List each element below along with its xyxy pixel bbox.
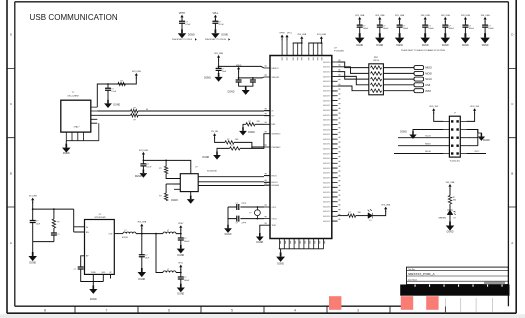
svg-text:3V3_USB: 3V3_USB: [317, 34, 326, 36]
svg-text:100nF: 100nF: [449, 28, 455, 30]
svg-text:PLACE NEXT TO EACH VCCA AND VC: PLACE NEXT TO EACH VCCA AND VCCD PINS: [401, 49, 446, 52]
svg-text:ADBUS5: ADBUS5: [323, 201, 330, 204]
resistor RN element 1: [371, 66, 382, 69]
power flag 1V8_USB cap 5: [441, 15, 451, 23]
wire U1 pin to RN row5: [338, 86, 369, 91]
ferrite bead L VPHY: [163, 232, 176, 234]
wire VPLL to cap: [214, 19, 216, 22]
ground DGND green led: [446, 222, 455, 231]
wire R to ground: [243, 124, 246, 127]
svg-text:7: 7: [106, 308, 108, 312]
svg-text:3V3_USB: 3V3_USB: [381, 205, 390, 207]
svg-text:3V3_USB: 3V3_USB: [355, 15, 365, 17]
svg-text:OSCI: OSCI: [272, 207, 277, 209]
wire divider to U1 SUSPND: [252, 134, 264, 149]
ground DGND TEST pin: [256, 233, 264, 241]
svg-text:ADBUS7: ADBUS7: [323, 95, 330, 98]
wire divider to U1 PWRSAV: [252, 147, 264, 148]
U1 bottom pins and ground bus: [279, 239, 324, 249]
wire 5V rail: [33, 208, 74, 210]
power flag 3V3_USB regulator out: [137, 222, 146, 230]
power flag 3V3_USB small IC: [139, 150, 148, 158]
svg-text:DGND: DGND: [188, 34, 195, 36]
svg-text:SCLK: SCLK: [425, 135, 431, 137]
wire to vphy cap: [180, 234, 182, 238]
svg-text:100nF: 100nF: [403, 28, 409, 30]
ground DGND bypass cap 6: [461, 33, 471, 43]
svg-text:R?: R?: [134, 108, 136, 110]
ground DGND VPLL cap: [177, 284, 185, 293]
svg-text:SUSPND#: SUSPND#: [272, 134, 282, 136]
ground DGND reg out cap: [138, 268, 147, 277]
wire rail to VIN EN: [74, 209, 85, 232]
svg-text:ADBUS6: ADBUS6: [323, 90, 330, 93]
resistor R divider top: [225, 141, 234, 144]
svg-text:3V3_USB: 3V3_USB: [395, 15, 405, 17]
capacitor C vregin 1: [236, 80, 242, 82]
capacitor C bypass 5: [442, 25, 448, 27]
wire rail to cap: [142, 160, 144, 164]
wire cap to ground: [218, 70, 220, 73]
capacitor C small IC: [140, 164, 146, 166]
red highlight square 2: [401, 296, 413, 310]
svg-text:D?: D?: [369, 220, 371, 222]
capacitor C bypass reg: [78, 267, 84, 269]
svg-text:ADBUS0: ADBUS0: [323, 61, 330, 64]
wire flag to resistor: [449, 188, 451, 196]
resistor R series XO: [131, 114, 139, 117]
svg-text:DGND: DGND: [447, 232, 454, 234]
ground DGND reset cap: [215, 73, 223, 82]
svg-text:100nF: 100nF: [488, 28, 494, 30]
wire J1 pin2 to VDD flag: [466, 112, 474, 121]
wire ferrite to VPHY flag: [176, 229, 181, 233]
wire cap to ground: [141, 257, 143, 268]
svg-text:DGND: DGND: [462, 45, 469, 47]
wire osc out to R: [97, 110, 130, 112]
wire osc to R2: [97, 114, 130, 116]
node tag MOSI: [414, 71, 432, 75]
wire J1 MISO: [398, 145, 443, 147]
svg-text:100nF: 100nF: [184, 241, 190, 243]
resistor RN element 5: [371, 89, 382, 92]
svg-text:1V8_USB: 1V8_USB: [481, 15, 491, 17]
svg-text:ADBUS2: ADBUS2: [323, 148, 330, 151]
wire cap to ground: [484, 27, 486, 33]
power flag 3V3_USB green led: [446, 182, 455, 190]
wire crystal caps join: [227, 207, 229, 225]
svg-text:ADBUS4: ADBUS4: [323, 80, 330, 83]
transistor U3 small IC body SLG: [180, 174, 198, 192]
capacitor C bypass 1: [357, 25, 363, 27]
wire R to small IC pin: [166, 174, 180, 179]
op-amp U1 main USB IC body FT2232HL: [270, 56, 332, 239]
svg-text:5V_USB: 5V_USB: [29, 196, 37, 198]
wire cap to ground: [107, 90, 109, 100]
wire junction to flag: [141, 228, 143, 234]
svg-text:ADBUS4: ADBUS4: [323, 119, 330, 122]
svg-text:C?: C?: [57, 234, 59, 236]
ground DGND J1 right: [478, 133, 485, 141]
left zone ticks: [7, 69, 15, 208]
right zone ticks: [508, 69, 516, 208]
svg-text:L?: L?: [167, 269, 169, 271]
wire vregin net to U1: [239, 71, 264, 78]
wire flag to cap: [379, 21, 381, 25]
node tag MISO: [414, 66, 432, 70]
svg-text:VDD_3V3: VDD_3V3: [470, 106, 480, 108]
svg-text:100nF: 100nF: [363, 28, 369, 30]
svg-text:ADBUS1: ADBUS1: [323, 104, 330, 107]
capacitor C vregin 2: [250, 80, 256, 82]
capacitor C input bulk: [30, 221, 36, 223]
wire to osc cap: [107, 84, 109, 88]
wire R to U1 XO: [138, 114, 270, 116]
power flag 3V3_USB pwren led: [381, 205, 390, 213]
power flag 3V3_USB reset pullup: [214, 53, 223, 61]
svg-text:DGND: DGND: [248, 132, 255, 134]
oscillator bottom pins: [66, 123, 99, 141]
svg-text:TEST: TEST: [272, 225, 278, 227]
bottom zone number row dividers: [75, 306, 390, 313]
wire small IC to ground: [190, 192, 192, 196]
svg-text:33: 33: [146, 109, 148, 111]
svg-text:MOSI: MOSI: [425, 72, 432, 76]
ground DGND bypass cap 4: [420, 33, 430, 43]
power flag VPLL: [212, 12, 219, 21]
wire 3v3 rail to small IC: [143, 156, 190, 174]
power flag VPHY: [179, 12, 186, 21]
wire flag to cap: [424, 21, 426, 25]
wire node to R2: [165, 184, 167, 193]
wire flag to cap: [359, 21, 361, 25]
svg-text:VPHY: VPHY: [179, 12, 186, 15]
ground DGND REF resistor: [239, 127, 247, 135]
ferrite bead L VPLL: [163, 271, 176, 273]
wire cap to ground: [464, 27, 466, 33]
svg-text:5: 5: [231, 308, 233, 312]
svg-text:3V3_USB: 3V3_USB: [132, 71, 141, 73]
wire TEST to ground: [260, 225, 264, 233]
svg-text:ADBUS5: ADBUS5: [323, 123, 330, 126]
U1 top pin numbers: [282, 57, 323, 60]
svg-text:100nF: 100nF: [428, 28, 434, 30]
power flag 3V3_USB left rail: [297, 34, 306, 42]
ground DGND regulator: [89, 285, 97, 294]
ground DGND bypass cap 3: [395, 33, 405, 43]
svg-text:R?: R?: [249, 121, 251, 123]
svg-text:ADBUS0: ADBUS0: [323, 99, 330, 102]
svg-text:ADBUS2: ADBUS2: [323, 70, 330, 73]
svg-text:R?: R?: [159, 168, 161, 170]
svg-text:DGND: DGND: [171, 200, 178, 202]
ground DGND bypass cap 2: [375, 33, 385, 43]
connector J1 pin stubs: [443, 120, 466, 155]
svg-text:PGND: PGND: [91, 272, 97, 274]
capacitor C bypass 4: [422, 25, 428, 27]
capacitor C bypass 7: [482, 25, 488, 27]
wire LED to flag: [373, 211, 386, 216]
wire U1 pin to RN row4: [338, 76, 369, 84]
svg-text:DGND: DGND: [256, 242, 263, 244]
svg-text:DGND: DGND: [202, 157, 209, 159]
svg-text:3V3_USB: 3V3_USB: [214, 53, 223, 55]
wire J1 right to ground: [466, 130, 478, 134]
capacitor C crystal 1: [237, 204, 239, 210]
svg-text:SLG46538: SLG46538: [207, 170, 217, 172]
ferrite bead L main: [123, 232, 136, 234]
svg-text:3V3_USB: 3V3_USB: [137, 222, 146, 224]
U1 left pin labels: [272, 68, 282, 227]
svg-text:4.7uF: 4.7uF: [185, 24, 191, 26]
wire caps join: [239, 82, 253, 86]
capacitor C reset: [216, 68, 222, 70]
svg-text:D?: D?: [453, 218, 455, 220]
svg-text:DGND: DGND: [63, 153, 70, 155]
svg-text:DGND: DGND: [277, 264, 284, 266]
svg-text:DGND: DGND: [483, 140, 490, 142]
svg-text:DGND: DGND: [177, 255, 184, 257]
svg-text:3: 3: [357, 308, 359, 312]
wire cap to ground: [180, 240, 182, 245]
svg-text:ADBUS7: ADBUS7: [323, 210, 330, 213]
svg-text:Date Sheet: Date Sheet: [408, 278, 417, 281]
connector J1 body: [449, 116, 460, 157]
svg-text:ADBUS0: ADBUS0: [323, 138, 330, 141]
svg-text:VREGIN: VREGIN: [272, 77, 280, 79]
ground DGND vregin caps: [242, 86, 250, 95]
power flag 3V3_USB right rail: [317, 34, 326, 42]
crystal Y2: [255, 207, 261, 219]
wire to vpll cap: [180, 273, 182, 278]
wire join to ground: [33, 235, 54, 242]
svg-text:ADBUS0: ADBUS0: [323, 176, 330, 179]
wire OSCI: [228, 206, 264, 208]
svg-text:EEDATA: EEDATA: [272, 184, 280, 187]
ground DGND under VPLL cap: [211, 29, 220, 38]
svg-text:R?: R?: [134, 119, 136, 121]
svg-text:8: 8: [44, 308, 46, 312]
svg-text:ADBUS6: ADBUS6: [323, 167, 330, 170]
wire cap to ground: [181, 23, 183, 29]
ground DGND divider: [213, 151, 221, 159]
svg-text:ADBUS0: ADBUS0: [323, 215, 330, 218]
capacitor C input 2: [51, 233, 57, 235]
wire reset net to U1: [219, 59, 264, 68]
wire J1 pin3 to ground: [413, 130, 443, 132]
wire ferrite to vphy branch: [136, 233, 163, 235]
svg-text:ADBUS2: ADBUS2: [323, 186, 330, 189]
resistor R REF: [246, 123, 255, 126]
svg-text:ADBUS2: ADBUS2: [323, 109, 330, 112]
svg-text:OSCO: OSCO: [272, 219, 278, 221]
svg-text:MISO: MISO: [425, 143, 431, 145]
svg-text:0.1uF: 0.1uF: [111, 91, 117, 93]
svg-text:R?: R?: [121, 81, 123, 83]
wire R to cap: [53, 228, 55, 233]
svg-text:Y?: Y?: [249, 213, 251, 215]
wire U1 pin to RN row3: [338, 72, 369, 80]
svg-text:330: 330: [453, 200, 456, 202]
wire RN to tag SCLK: [383, 78, 414, 80]
wire VPHY to cap: [181, 19, 183, 22]
capacitor C osc enable: [105, 88, 111, 90]
red highlight square 3: [426, 296, 438, 310]
ground DGND oscillator: [62, 144, 71, 153]
svg-text:S82XXXX_PVRF_A: S82XXXX_PVRF_A: [408, 272, 435, 276]
op-amp U4 regulator body SPX3819: [85, 220, 115, 275]
wire flag to cap: [399, 21, 401, 25]
svg-text:RESET#: RESET#: [272, 68, 280, 70]
wire cap to gnd rail: [81, 269, 94, 282]
wire to reset cap: [218, 66, 220, 68]
resistor R divider bottom: [230, 147, 240, 150]
U1 left pin stubs: [264, 68, 270, 225]
wire reg gnd pins: [93, 274, 110, 281]
svg-text:ADBUS7: ADBUS7: [323, 133, 330, 136]
power flag VPLL out: [178, 263, 184, 271]
power flag VPHY at U1: [279, 33, 285, 41]
power flag 3V3_USB cap 3: [395, 15, 405, 23]
svg-text:4: 4: [294, 308, 296, 312]
wire resistor to LED: [449, 204, 451, 210]
revision table lines: [445, 298, 492, 313]
svg-text:EECLK: EECLK: [272, 182, 279, 184]
svg-text:Title Rev: Title Rev: [408, 268, 415, 271]
wire cap to ground: [424, 27, 426, 33]
wire cap to ground: [444, 27, 446, 33]
wire junction to cap: [141, 234, 143, 255]
U1 right pin labels: [323, 61, 330, 223]
svg-text:VPHY: VPHY: [279, 33, 285, 35]
ground DGND bypass cap 7: [480, 33, 490, 43]
wire flag to cap: [464, 21, 466, 25]
capacitor C crystal 2: [237, 216, 239, 222]
resistor R green LED: [448, 196, 451, 204]
wire osc enable net: [97, 84, 136, 107]
svg-text:0.1uF: 0.1uF: [147, 167, 153, 169]
power flag 5V_USB: [29, 196, 37, 204]
wire osc to ground: [65, 141, 67, 144]
svg-text:PU_RB: PU_RB: [211, 131, 218, 133]
svg-text:4.7uF: 4.7uF: [219, 24, 225, 26]
wire cap to join: [32, 222, 34, 241]
svg-text:ADBUS5: ADBUS5: [323, 162, 330, 165]
capacitor C bypass 2: [377, 25, 383, 27]
svg-text:DGND: DGND: [400, 132, 407, 134]
wire to ground: [92, 282, 94, 286]
svg-text:XTAL?: XTAL?: [74, 125, 81, 128]
svg-text:DGND: DGND: [482, 45, 489, 47]
wire U1 pin to RN row1: [338, 62, 369, 68]
svg-text:BLM18: BLM18: [122, 237, 128, 239]
svg-text:L?: L?: [125, 230, 127, 232]
svg-text:ADBUS1: ADBUS1: [323, 220, 330, 223]
resistor R series XI: [131, 109, 139, 112]
svg-text:3V3_USB: 3V3_USB: [297, 34, 306, 36]
svg-text:100nF: 100nF: [383, 28, 389, 30]
ground DGND regulator input: [28, 252, 37, 261]
svg-text:USB COMMUNICATION: USB COMMUNICATION: [30, 13, 118, 22]
wire R to U1 XI: [138, 110, 270, 112]
svg-text:ADBUS1: ADBUS1: [323, 181, 330, 184]
wire R to U1 REF: [255, 123, 264, 125]
svg-text:ADBUS1: ADBUS1: [323, 66, 330, 69]
svg-text:PLACE NEXT TO PIN 49: PLACE NEXT TO PIN 49: [205, 38, 226, 41]
svg-text:DGND: DGND: [422, 45, 429, 47]
svg-text:DGND: DGND: [356, 45, 363, 47]
svg-text:1V8_USB: 1V8_USB: [461, 15, 471, 17]
resistor RN element 2: [371, 72, 382, 75]
svg-text:INT#: INT#: [475, 151, 481, 153]
svg-text:DGND: DGND: [442, 45, 449, 47]
power flag VPHY out: [178, 223, 184, 231]
svg-text:MOSI: MOSI: [425, 151, 431, 153]
svg-text:DGND: DGND: [225, 234, 232, 236]
wire resistor to LED: [356, 215, 369, 217]
wire cap to ground: [214, 23, 216, 29]
svg-text:MISO: MISO: [425, 66, 432, 70]
red highlight square 1: [329, 296, 341, 310]
power flag 3V3_USB cap 2: [375, 15, 385, 23]
svg-text:DGND: DGND: [138, 279, 145, 281]
ground DGND small IC cap: [140, 169, 148, 177]
svg-text:A: A: [10, 241, 12, 245]
svg-text:CAY16: CAY16: [373, 59, 379, 62]
wire rail to pullup R: [165, 160, 167, 166]
wire bus to ground: [280, 249, 282, 253]
svg-text:100nF: 100nF: [184, 280, 190, 282]
svg-text:C?: C?: [236, 203, 238, 205]
resistor RN element 3: [371, 77, 382, 80]
svg-text:ADBUS3: ADBUS3: [323, 75, 330, 78]
ground DGND VPHY cap: [177, 245, 185, 254]
svg-text:R?: R?: [231, 145, 233, 147]
svg-text:B: B: [10, 172, 12, 176]
svg-text:ADBUS3: ADBUS3: [323, 152, 330, 155]
wire cap to ground: [359, 27, 361, 33]
capacitor C VPHY: [179, 21, 185, 23]
transistor U2 oscillator module body: [61, 100, 91, 132]
wire RN to tag INT#: [383, 90, 414, 92]
svg-text:INT#: INT#: [425, 89, 431, 93]
black revision bar: [400, 285, 509, 296]
svg-text:100nF: 100nF: [469, 28, 475, 30]
wire BP to cap: [81, 256, 85, 267]
svg-text:ADBUS3: ADBUS3: [323, 191, 330, 194]
oscillator right pin stubs: [91, 107, 98, 123]
svg-text:DGND: DGND: [221, 34, 228, 36]
power flag 3V3_USB osc: [132, 71, 141, 79]
wire cap to ground: [399, 27, 401, 33]
svg-text:330: 330: [358, 212, 361, 214]
wire RN to tag MOSI: [383, 72, 414, 74]
LED D2: [368, 209, 373, 218]
svg-text:C?: C?: [74, 269, 76, 271]
wire join down: [32, 242, 34, 252]
ground DGND bypass cap 1: [355, 33, 365, 43]
power flag VDD_3V3 left: [429, 106, 439, 114]
wire resistor to flag: [125, 77, 136, 84]
capacitor C bypass 6: [462, 25, 468, 27]
svg-text:DGND: DGND: [90, 299, 97, 301]
svg-text:VPLL: VPLL: [178, 263, 184, 265]
wire J1 pin1 to VDD flag: [434, 112, 444, 121]
svg-text:ADBUS4: ADBUS4: [323, 196, 330, 199]
U1 top power pins and rails: [282, 39, 322, 56]
wire J1 SCLK: [398, 137, 443, 139]
svg-text:FT2232HL: FT2232HL: [334, 50, 345, 52]
